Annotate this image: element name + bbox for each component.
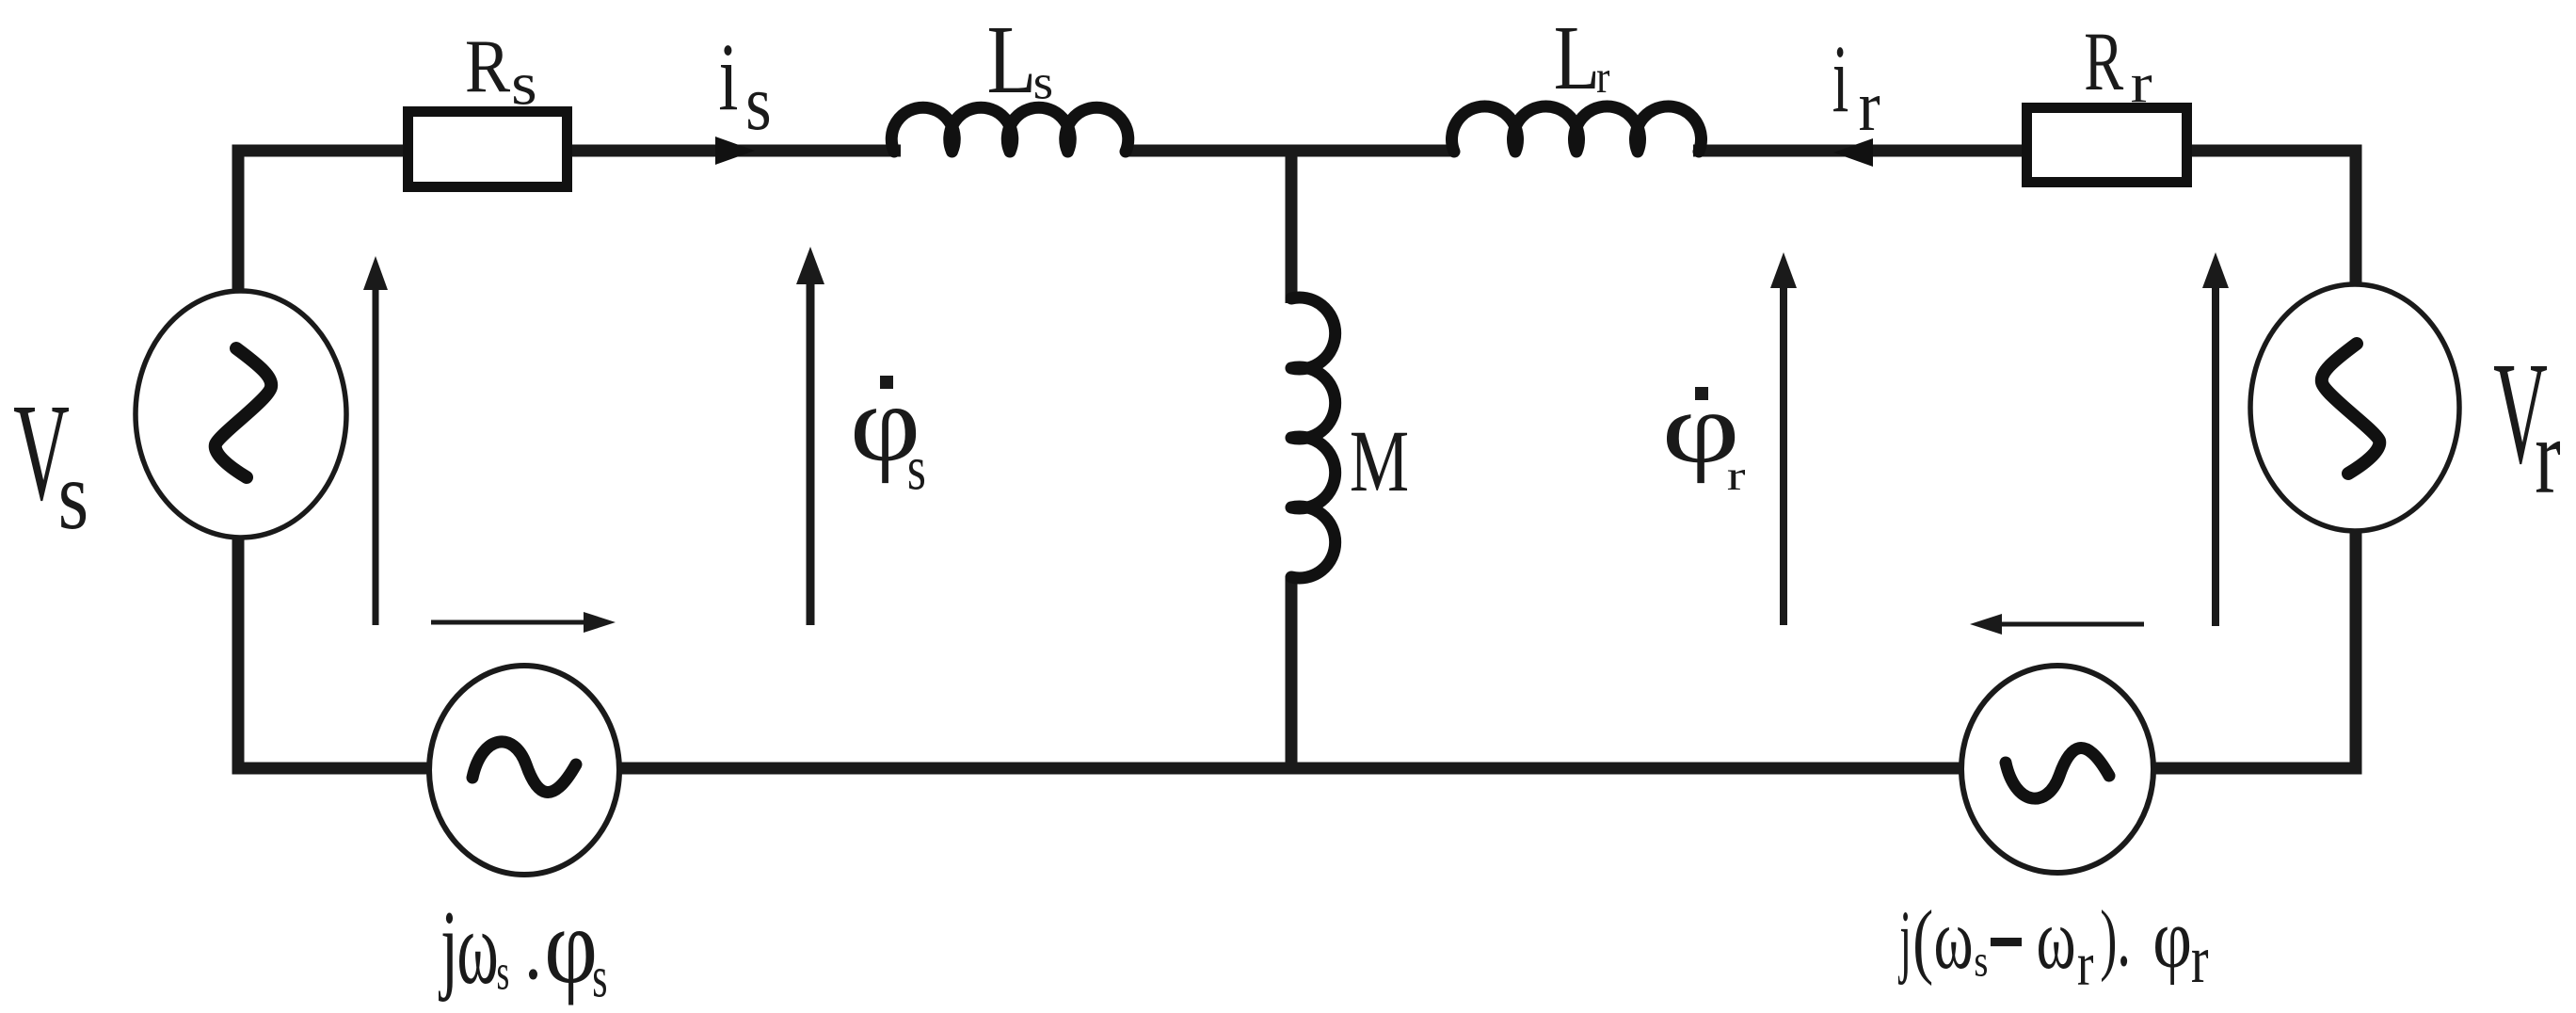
svg-text:ω: ω <box>456 890 498 1005</box>
svg-text:ω: ω <box>2037 892 2076 988</box>
svg-text:L: L <box>1554 8 1600 109</box>
svg-text:r: r <box>2535 396 2560 517</box>
svg-text:r: r <box>1727 453 1746 499</box>
svg-text:r: r <box>2077 930 2094 999</box>
svg-text:−: − <box>1987 846 2024 1013</box>
svg-text:s: s <box>907 433 926 503</box>
svg-text:s: s <box>1974 937 1988 987</box>
svg-text:s: s <box>592 945 607 1009</box>
svg-text:s: s <box>745 59 772 147</box>
svg-text:r: r <box>1596 51 1609 102</box>
svg-text:R: R <box>465 24 511 108</box>
svg-text:.: . <box>2117 887 2131 985</box>
svg-text:R: R <box>2084 15 2124 108</box>
svg-text:j: j <box>1897 895 1912 987</box>
svg-text:(: ( <box>1912 894 1933 988</box>
svg-text:s: s <box>58 442 89 551</box>
svg-text:φ: φ <box>544 887 598 1005</box>
svg-text:i: i <box>718 23 738 131</box>
svg-text:r: r <box>2131 52 2152 114</box>
svg-text:r: r <box>1859 66 1880 146</box>
svg-text:L: L <box>987 6 1037 114</box>
svg-text:ω: ω <box>1934 892 1974 988</box>
svg-text:s: s <box>511 50 537 118</box>
svg-text:): ) <box>2100 894 2117 983</box>
svg-text:s: s <box>497 943 510 1000</box>
svg-text:j: j <box>439 892 458 1003</box>
svg-text:r: r <box>2191 921 2209 996</box>
svg-text:φ: φ <box>2152 891 2192 986</box>
svg-text:i: i <box>1832 26 1849 133</box>
svg-text:M: M <box>1350 412 1409 509</box>
svg-text:.: . <box>524 899 542 998</box>
svg-text:s: s <box>1033 55 1053 110</box>
